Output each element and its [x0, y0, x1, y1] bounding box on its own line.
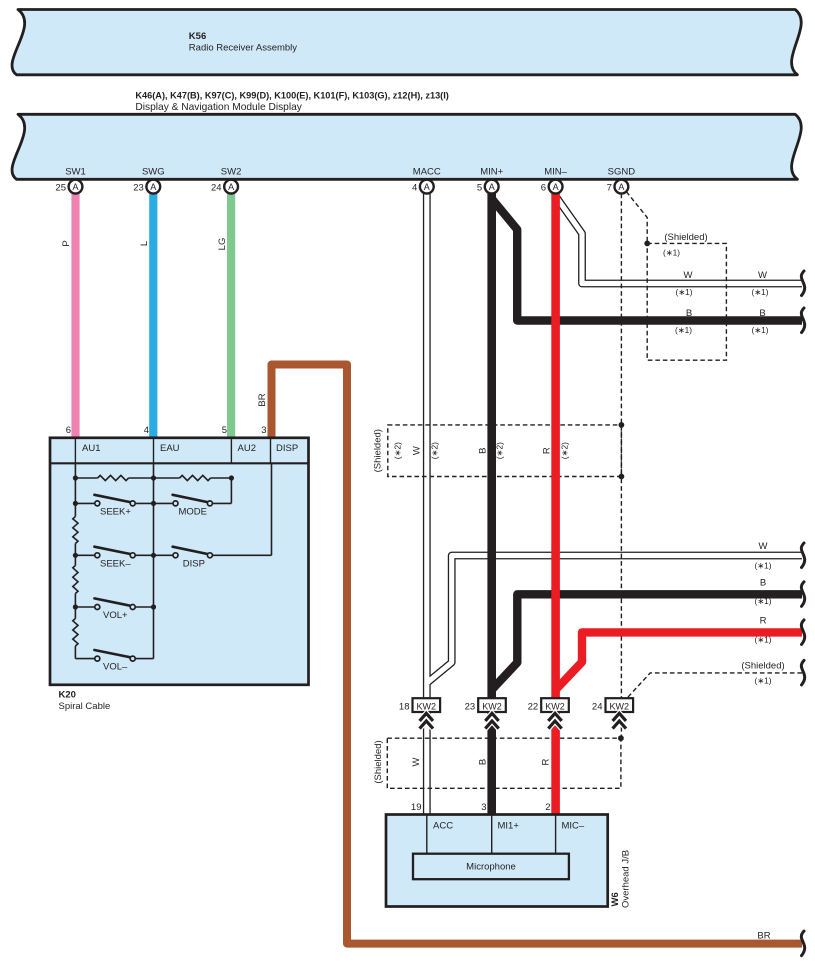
OFF-PAGE SQUIGGLES: [801, 271, 804, 956]
svg-text:(∗1): (∗1): [754, 596, 771, 606]
svg-text:L: L: [139, 241, 150, 246]
wire SEEK+ row: [75, 502, 153, 504]
wire W (*1) mid horizontal branch: [427, 556, 802, 683]
svg-text:25: 25: [55, 183, 66, 194]
svg-text:W: W: [758, 270, 767, 281]
svg-text:K20: K20: [59, 690, 76, 701]
svg-text:Microphone: Microphone: [466, 862, 516, 873]
junction dots on shield lines: [618, 241, 650, 742]
off-page squiggle shielded: [801, 660, 804, 685]
connector KW2 pin 18: [399, 698, 440, 728]
svg-text:24: 24: [211, 183, 222, 194]
wire shield drain dashed below KW2 24: [620, 712, 622, 736]
SOLID-WIRES: [76, 193, 803, 944]
svg-text:MIC–: MIC–: [562, 821, 585, 832]
svg-text:7: 7: [607, 183, 612, 194]
svg-text:23: 23: [133, 183, 144, 194]
svg-text:(∗1): (∗1): [751, 325, 768, 335]
pin 4 A (MACC): [412, 180, 434, 194]
BAND-DISPLAY-MODULE: [12, 114, 801, 179]
svg-text:B: B: [759, 308, 765, 319]
switch VOL- contacts: [95, 656, 100, 661]
node shield dot (*2) box top: [619, 422, 625, 428]
wire R red main MIN- to microphone MIC-: [551, 193, 560, 816]
off-page squiggle BR bottom: [801, 931, 804, 956]
svg-text:A: A: [553, 182, 559, 192]
wire VOL- row: [75, 658, 153, 660]
K20 header cell divider EAU: [153, 438, 155, 464]
svg-text:VOL–: VOL–: [103, 662, 128, 673]
pin 23 A (SWG): [133, 180, 160, 194]
svg-text:(∗1): (∗1): [754, 676, 771, 686]
svg-text:BR: BR: [257, 393, 268, 406]
wire AU2 drop: [230, 478, 232, 503]
LOWER SHIELD BOX LABELS (rotated): [373, 740, 552, 783]
svg-text:(Shielded): (Shielded): [373, 429, 384, 472]
svg-text:R: R: [760, 616, 767, 627]
svg-text:K56: K56: [189, 31, 206, 42]
svg-text:(Shielded): (Shielded): [373, 740, 384, 783]
svg-text:(∗1): (∗1): [751, 287, 768, 297]
resistor R vertical 1: [73, 517, 78, 544]
svg-text:SEEK–: SEEK–: [100, 558, 131, 569]
svg-text:MIN+: MIN+: [480, 167, 503, 178]
svg-text:18: 18: [399, 702, 410, 713]
BAND-K56: [12, 10, 801, 75]
connector KW2 pin 22: [528, 698, 569, 728]
svg-text:AU1: AU1: [82, 443, 100, 454]
svg-text:(∗1): (∗1): [754, 561, 771, 571]
WHITE-WIRES-OUTLINE: [427, 193, 802, 816]
svg-text:23: 23: [465, 702, 476, 713]
connector KW2 pin 24: [592, 698, 633, 728]
shield box upper right (Shielded)(*1): [647, 243, 726, 360]
pin 6 A (MIN-): [541, 180, 563, 194]
svg-text:A: A: [150, 182, 156, 192]
svg-text:MI1+: MI1+: [498, 821, 520, 832]
svg-text:19: 19: [411, 802, 422, 813]
node dots K20: [73, 475, 78, 480]
svg-text:A: A: [618, 182, 624, 192]
svg-text:W: W: [412, 446, 423, 455]
wire (Shielded)(*1) dashed to right edge: [627, 673, 802, 699]
switch SEEK+ arm: [94, 495, 132, 503]
svg-text:SWG: SWG: [142, 167, 165, 178]
svg-text:A: A: [228, 182, 234, 192]
svg-text:(Shielded): (Shielded): [664, 232, 707, 243]
svg-text:DISP: DISP: [276, 443, 298, 454]
wire DISP rail: [271, 463, 273, 555]
svg-text:MODE: MODE: [179, 507, 208, 518]
svg-text:W: W: [684, 270, 693, 281]
svg-text:W: W: [759, 541, 768, 552]
connector band K46 Display module: [12, 114, 801, 179]
svg-text:MACC: MACC: [413, 167, 441, 178]
off-page squiggle B mid: [801, 582, 804, 607]
SHIELD BOX (*2) LABELS (rotated): [373, 429, 570, 472]
svg-text:DISP: DISP: [183, 558, 205, 569]
svg-text:6: 6: [66, 425, 71, 436]
pin 25 A (SW1): [55, 180, 82, 194]
svg-text:A: A: [424, 182, 430, 192]
component Microphone inner box: [413, 854, 569, 880]
off-page squiggle W mid: [801, 543, 804, 568]
wire R red branch to right edge: [556, 632, 802, 689]
switch SEEK- contacts: [95, 553, 100, 558]
node shield dot (*2) box bottom: [619, 474, 625, 480]
switch VOL+ arm: [94, 598, 132, 606]
wire B black branch lower to right edge: [492, 594, 802, 689]
resistor R vertical 2: [73, 566, 78, 594]
svg-text:Overhead J/B: Overhead J/B: [621, 850, 632, 908]
svg-text:(∗1): (∗1): [675, 287, 692, 297]
svg-text:R: R: [542, 447, 553, 454]
wire L blue SWG: [149, 193, 157, 438]
wire VOL+ row: [75, 606, 153, 608]
wire shield drain diagonal from pin7 to shield box: [626, 192, 647, 244]
svg-text:A: A: [72, 182, 78, 192]
svg-text:3: 3: [261, 425, 266, 436]
svg-text:B: B: [686, 308, 692, 319]
wire MODE row: [154, 502, 232, 504]
wire LG green SW2: [227, 193, 235, 438]
W6 cell divider MI1+: [491, 815, 493, 854]
off-page squiggle W upper: [801, 271, 804, 296]
svg-text:LG: LG: [217, 238, 228, 251]
switch VOL- arm: [94, 650, 132, 658]
svg-text:SGND: SGND: [608, 167, 636, 178]
W6 cell divider MIC-: [555, 815, 557, 854]
switch DISP contacts: [173, 553, 178, 558]
WIRE COLOUR LABELS (rotated): [61, 238, 268, 407]
K20 header cell divider DISP: [270, 438, 272, 464]
svg-text:(∗2): (∗2): [393, 442, 403, 459]
svg-text:(∗2): (∗2): [560, 442, 570, 459]
svg-text:R: R: [541, 758, 552, 765]
switch VOL+ contacts: [95, 605, 100, 610]
svg-text:MIN–: MIN–: [544, 167, 567, 178]
KW2 CONNECTORS: [399, 698, 633, 728]
K20 header cell divider AU2: [230, 438, 232, 464]
svg-text:4: 4: [412, 183, 417, 194]
svg-text:24: 24: [592, 702, 603, 713]
wire B black branch upper to right edge: [492, 199, 802, 321]
K20 SPIRAL CABLE BOX: [50, 425, 309, 712]
off-page squiggle B upper: [801, 308, 804, 333]
wire BR brown DISP to bottom right edge: [272, 365, 803, 944]
svg-text:(Shielded): (Shielded): [741, 661, 784, 672]
wire W from pin6 MIN- to right edge: [556, 197, 802, 284]
svg-text:(∗2): (∗2): [430, 442, 440, 459]
PINS: [55, 180, 628, 194]
connector band K56 Radio Receiver Assembly: [12, 10, 801, 75]
K20 header cell divider AU1: [74, 438, 76, 464]
wire B black main MIN+ to microphone MI1+: [487, 193, 496, 816]
pin 5 A (MIN+): [477, 180, 499, 194]
component K20 spiral cable outline: [50, 438, 309, 685]
component W6 overhead JB outline: [386, 815, 608, 907]
svg-text:3: 3: [481, 802, 486, 813]
svg-text:2: 2: [545, 802, 550, 813]
UPPER SHIELD BOX LABELS: [663, 232, 769, 335]
pin 7 A (SGND): [607, 180, 629, 194]
svg-text:AU2: AU2: [238, 443, 256, 454]
switch SEEK+ contacts: [95, 501, 100, 506]
svg-text:Radio Receiver Assembly: Radio Receiver Assembly: [189, 43, 297, 54]
svg-text:A: A: [489, 182, 495, 192]
WHITE-WIRES-FILL: [427, 193, 802, 816]
svg-text:K46(A), K47(B), K97(C), K99(D): K46(A), K47(B), K97(C), K99(D), K100(E),…: [135, 91, 448, 101]
svg-text:(∗1): (∗1): [675, 325, 692, 335]
svg-text:(∗1): (∗1): [663, 248, 680, 258]
K20 header divider: [50, 462, 309, 464]
svg-text:ACC: ACC: [433, 821, 453, 832]
MICROPHONE / OVERHEAD JB BOX: [386, 802, 632, 908]
node shield dot upper box: [644, 241, 650, 247]
svg-text:P: P: [61, 240, 72, 246]
DASHED-LAYER: [387, 192, 802, 789]
svg-text:W6: W6: [610, 892, 621, 906]
switch DISP arm: [173, 547, 210, 555]
connector KW2 pin 23: [465, 698, 506, 728]
svg-text:W: W: [411, 757, 422, 766]
svg-text:B: B: [478, 448, 489, 454]
wire EAU rail: [153, 463, 155, 658]
off-page squiggle R mid: [801, 620, 804, 645]
wire shield drain dashed vertical from SGND pin7: [620, 194, 622, 699]
svg-text:4: 4: [144, 425, 149, 436]
wire top row with resistors: [75, 477, 231, 479]
RIGHT MID LABELS: [741, 541, 784, 942]
wire P pink SW1: [71, 193, 79, 438]
resistor R horizontal 1: [98, 475, 129, 480]
svg-text:Spiral Cable: Spiral Cable: [59, 701, 111, 712]
W6 cell divider ACC: [426, 815, 428, 854]
svg-text:(∗2): (∗2): [495, 442, 505, 459]
svg-text:EAU: EAU: [160, 443, 180, 454]
shield box (*2): [388, 425, 622, 477]
svg-text:SW2: SW2: [221, 167, 242, 178]
svg-text:B: B: [478, 759, 489, 765]
wire DISP row: [154, 554, 272, 556]
switch SEEK- arm: [94, 547, 132, 555]
resistor R vertical 3: [73, 619, 78, 647]
svg-text:(∗1): (∗1): [754, 635, 771, 645]
wire SEEK- row: [75, 554, 153, 556]
resistor R horizontal 2: [180, 475, 211, 480]
svg-text:B: B: [760, 578, 766, 589]
svg-text:6: 6: [541, 183, 546, 194]
node shield dot lower box: [618, 735, 624, 741]
svg-text:5: 5: [477, 183, 482, 194]
svg-text:BR: BR: [757, 931, 770, 942]
wire AU1 rail: [74, 463, 76, 658]
svg-text:5: 5: [222, 425, 227, 436]
shield box lower (Shielded): [387, 738, 621, 788]
switch MODE contacts: [173, 501, 178, 506]
svg-text:SEEK+: SEEK+: [100, 507, 131, 518]
wire W MACC vertical (pin4 to microphone ACC): [423, 193, 431, 816]
svg-text:Display & Navigation Module Di: Display & Navigation Module Display: [135, 102, 302, 113]
svg-text:22: 22: [528, 702, 539, 713]
switch MODE arm: [173, 495, 210, 503]
svg-text:SW1: SW1: [65, 167, 86, 178]
svg-text:VOL+: VOL+: [103, 610, 128, 621]
pin 24 A (SW2): [211, 180, 238, 194]
